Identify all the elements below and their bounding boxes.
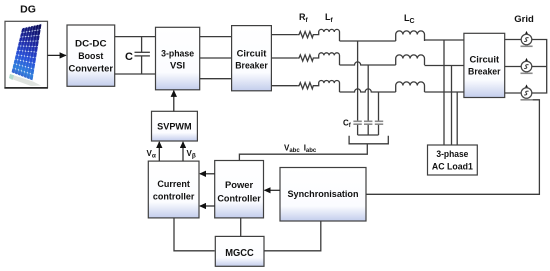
wire Current controller to SVPWM arrow Valpha <box>158 142 160 161</box>
inductor Lf phase B <box>314 53 340 65</box>
svg-text:MGCC: MGCC <box>225 248 254 259</box>
wire tap phase A to Cf <box>357 41 359 121</box>
wire Current controller to SVPWM arrow Vbeta <box>182 142 184 161</box>
wire grid source B to bus <box>532 66 547 68</box>
wire Lc to CB2 phase B <box>425 65 464 67</box>
resistor Rf phase B <box>298 55 314 61</box>
svg-text:controller: controller <box>153 190 195 201</box>
grid source GB <box>521 58 533 73</box>
wire load tap phase A <box>443 40 445 145</box>
svg-text:Circuit: Circuit <box>237 47 267 58</box>
wire VSI to CB1 phase A <box>200 36 232 38</box>
wire VSI to CB1 phase C <box>200 78 232 80</box>
svg-text:Grid: Grid <box>514 14 534 25</box>
svg-text:SVPWM: SVPWM <box>157 122 192 133</box>
svg-text:Power: Power <box>225 179 253 190</box>
capacitor Cf phase C <box>375 121 383 124</box>
inductor Lf phase A <box>314 29 340 41</box>
svg-text:DG: DG <box>20 4 36 16</box>
svg-text:Circuit: Circuit <box>469 54 499 65</box>
converter DC-DC Boost <box>67 25 115 86</box>
wire Lc to CB2 phase A <box>425 39 464 41</box>
inverter U1 3-phase VSI <box>156 27 200 90</box>
svg-text:Boost: Boost <box>78 50 103 61</box>
wire grid sense to Synchronisation <box>366 100 539 195</box>
wire MGCC to Synchronisation <box>264 221 320 251</box>
resistor Rf phase A <box>298 32 314 38</box>
inductor Lf phase C <box>314 80 340 92</box>
grid source GC <box>521 84 533 99</box>
wire Synchronisation to Power Controller arrow <box>265 189 281 191</box>
wire grid bus right <box>532 40 547 94</box>
capacitor C <box>125 37 150 74</box>
load 3-phase AC Load1 <box>428 145 478 175</box>
svg-text:3-phase: 3-phase <box>161 48 194 59</box>
svg-text:Converter: Converter <box>69 63 114 74</box>
inductor Lc phase B <box>396 55 425 65</box>
wire Power Controller to MGCC <box>240 218 242 236</box>
svg-text:AC Load1: AC Load1 <box>432 160 473 171</box>
DG solar panel source <box>4 21 48 88</box>
svg-text:3-phase: 3-phase <box>436 148 468 159</box>
wire filter run phase C with humps over taps A and B <box>340 89 396 92</box>
svg-text:Breaker: Breaker <box>235 59 268 70</box>
svg-text:C: C <box>125 51 133 63</box>
grid source GA <box>521 31 533 46</box>
svg-text:Controller: Controller <box>217 192 261 203</box>
wire CB1 to Rf phase C <box>271 85 297 87</box>
svg-text:DC-DC: DC-DC <box>75 38 107 49</box>
svg-text:Current: Current <box>157 178 190 189</box>
wire measurement to Power Controller <box>239 144 367 161</box>
svg-text:Breaker: Breaker <box>468 66 501 77</box>
circuit breaker CB2 <box>464 33 505 97</box>
block SVPWM <box>152 111 198 141</box>
wire DC link top rail <box>115 36 156 38</box>
wire load tap phase B <box>451 66 453 146</box>
wire neutral bus <box>358 134 379 136</box>
wire filter run phase B with hump over tap A <box>340 62 396 65</box>
resistor Rf phase C <box>298 83 314 89</box>
wire Lc to CB2 phase C <box>425 91 464 93</box>
wire Current controller to MGCC <box>174 218 215 251</box>
svg-text:VSI: VSI <box>170 59 185 70</box>
wire Power Controller to Current controller arrow 1 <box>200 173 215 175</box>
block Current controller <box>148 161 199 218</box>
wire CB2 to grid source B <box>505 66 522 68</box>
inductor Lc phase A <box>396 31 425 41</box>
wire DC link bottom rail <box>115 73 156 75</box>
block Power Controller <box>215 161 264 218</box>
wire load tap phase C <box>456 92 458 145</box>
wire DG to DC-DC with arrow <box>48 54 66 56</box>
capacitor Cf phase B <box>364 121 372 124</box>
wire tap phase C to Cf <box>378 92 380 121</box>
svg-text:Synchronisation: Synchronisation <box>288 188 359 199</box>
wire SVPWM to VSI arrow <box>173 91 175 112</box>
wire CB2 to grid source C <box>505 92 522 94</box>
measurement bracket <box>349 136 388 144</box>
wire filter run phase A <box>340 40 396 42</box>
wire CB2 to grid source A <box>505 39 522 41</box>
circuit breaker CB1 <box>232 26 272 91</box>
wire tap phase B to Cf <box>367 65 369 121</box>
block Synchronisation <box>280 168 366 222</box>
wire VSI to CB1 phase B <box>200 57 232 59</box>
wire CB1 to Rf phase B <box>271 57 297 59</box>
capacitor Cf phase A <box>353 121 361 124</box>
wire Power Controller to Current controller arrow 2 <box>200 205 215 207</box>
wire CB1 to Rf phase A <box>271 34 297 36</box>
wire Cf below plates to neutral bus <box>357 125 359 135</box>
block MGCC <box>215 236 264 266</box>
inductor Lc phase C <box>396 82 425 92</box>
